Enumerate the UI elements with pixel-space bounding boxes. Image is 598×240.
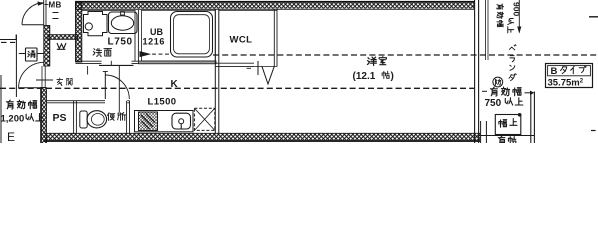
svg-text:1216: 1216: [143, 37, 165, 47]
door WCL folding V: [262, 67, 274, 84]
door MB (leaf+arc+frame): [22, 0, 46, 26]
label 帖: [382, 71, 389, 78]
dimension arrow 750 (right): [482, 91, 534, 95]
svg-text:(12.1: (12.1: [353, 71, 376, 82]
svg-text:750: 750: [485, 98, 502, 109]
svg-text:UB: UB: [150, 27, 163, 37]
UB folding door (triangle+dashes): [140, 51, 170, 57]
leader line B: [118, 66, 120, 112]
wall entry-left lower (hatched): [40, 88, 46, 144]
hatch circle symbol: [493, 77, 503, 87]
wall top (hatched outer wall): [76, 1, 475, 9]
entrance small symbol: [57, 43, 66, 49]
WCL handle tick: [247, 67, 252, 69]
label 玄関: [57, 78, 63, 85]
dashed line corridor/hall K: [0, 87, 474, 89]
washroom pan (washing machine): [84, 12, 108, 36]
wall UB/WCL and western-room west (double, full): [215, 10, 219, 135]
MB louver marks: [45, 5, 59, 19]
svg-text:L1500: L1500: [148, 96, 177, 107]
wall MB bottom (hatched): [48, 35, 78, 40]
svg-text:PS: PS: [53, 112, 67, 124]
B-type label box: [546, 64, 593, 88]
kitchen sink: [172, 113, 191, 129]
wall washroom/UB (double): [135, 10, 138, 61]
svg-text:35.75m2: 35.75m2: [548, 78, 584, 89]
veranda partition lines: [481, 121, 487, 143]
label 有効幅 veranda: [490, 87, 497, 96]
svg-text:K: K: [171, 79, 179, 90]
leader tick A: [87, 66, 89, 75]
bathtub UB: [171, 12, 213, 58]
label 以上 rotated top-right: [508, 18, 514, 24]
svg-text:WCL: WCL: [230, 35, 253, 46]
veranda floor line: [479, 135, 534, 137]
stove (hatched square): [139, 112, 158, 131]
fire extinguisher box 消: [19, 48, 44, 61]
label タイプ: [561, 66, 567, 73]
wall WCL bottom: [215, 61, 277, 75]
svg-text:B: B: [551, 66, 558, 77]
refrigerator space (dashed X box): [194, 108, 214, 130]
svg-text:MB: MB: [49, 1, 62, 10]
wall entry-left upper (hatched): [44, 26, 50, 67]
svg-text:1,200: 1,200: [1, 114, 25, 125]
wall WCL east (double): [274, 10, 277, 67]
svg-text:E: E: [7, 130, 15, 143]
label 消 in box: [28, 51, 35, 58]
wire corridor edge left: [0, 75, 2, 143]
wall UB bottom (gray filled): [139, 61, 217, 64]
kitchen counter: [135, 111, 194, 132]
tick bottom-right: [591, 130, 596, 132]
window outer frame lines: [486, 0, 488, 60]
toilet bowl: [80, 111, 107, 128]
label 以上 left: [26, 114, 34, 121]
wall window east (double line): [475, 0, 479, 143]
clipped glyphs below box: [498, 136, 505, 145]
entrance door jamb: [36, 66, 53, 88]
label 洋室: [367, 57, 376, 65]
wall bottom (hatched outer wall): [44, 133, 480, 142]
tick top-right: [589, 16, 598, 18]
porch edge line: [15, 35, 17, 98]
equipment box glyphs: [499, 120, 507, 128]
washbasin counter L750: [109, 12, 138, 34]
door entrance (leaf+arc): [19, 62, 44, 87]
balcony dimension line vertical 900: [517, 0, 521, 34]
label ベランダ vertical: [509, 45, 516, 50]
veranda outer wall (double): [531, 92, 535, 144]
dashed line ceiling (upper): [213, 54, 598, 56]
door toilet (leaf+arc): [103, 72, 130, 100]
WCL inner top line: [219, 9, 277, 11]
wall washroom bottom + sliding door: [76, 61, 139, 66]
wall washroom-left (hatched): [76, 2, 82, 62]
label 防 in circle: [496, 79, 501, 85]
label 便所: [108, 113, 115, 121]
wall PS/toilet divider: [74, 101, 77, 134]
UB module box: [142, 10, 216, 61]
label 有効幅 left: [6, 100, 13, 109]
equipment box on veranda: [495, 113, 521, 135]
svg-text:L750: L750: [108, 37, 133, 48]
label 以上 veranda: [505, 98, 512, 105]
corridor wall stub top-left: [0, 35, 16, 43]
wall toilet east: [127, 101, 130, 134]
label 有効幅 rotated top-right: [497, 4, 504, 9]
label 洗面: [93, 48, 102, 56]
svg-text:): ): [391, 71, 394, 82]
wall PS/toilet top: [47, 101, 130, 103]
washroom inner top line: [82, 9, 135, 11]
svg-text:900: 900: [512, 2, 522, 16]
